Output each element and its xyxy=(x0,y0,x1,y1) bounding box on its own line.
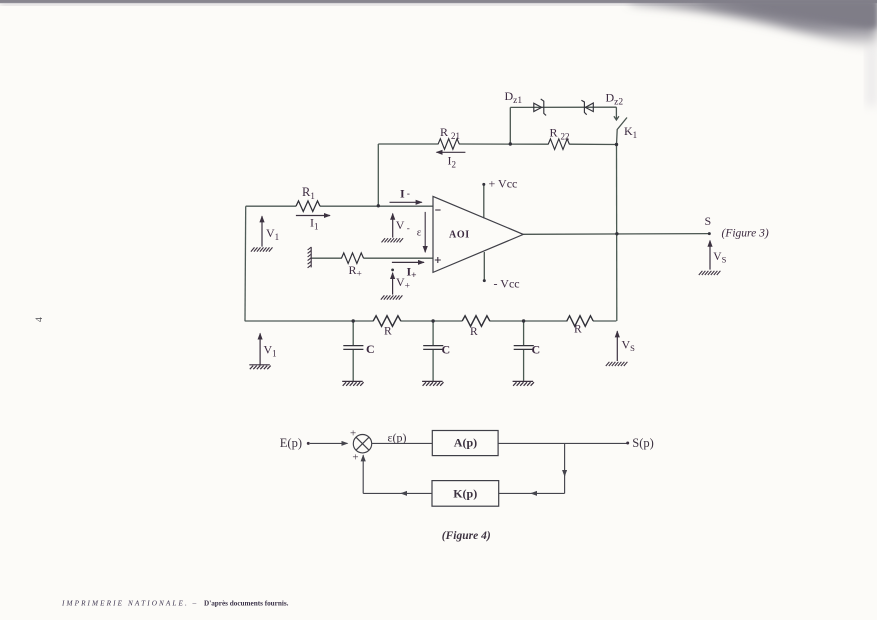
ground under V- xyxy=(382,238,404,242)
wire: E(p) into summing junction xyxy=(310,442,348,444)
wire: zener branch right drop to switch contact xyxy=(615,107,617,119)
zener diode Dz1 xyxy=(534,99,546,116)
capacitor C1 plates xyxy=(343,346,363,350)
svg-text:C: C xyxy=(532,343,541,357)
arrow V1 (ladder left, points up) xyxy=(259,333,261,365)
svg-text:S(p): S(p) xyxy=(632,436,654,450)
svg-text:E(p): E(p) xyxy=(280,436,302,450)
wire: feedback line through R21 R22 xyxy=(378,143,616,146)
ground under capacitor C2 xyxy=(422,381,443,385)
zener diode Dz2 xyxy=(581,100,593,115)
wire: feedback up into summer xyxy=(362,455,364,493)
op-amp non-inverting pin plus sign xyxy=(435,257,441,263)
ground under V1 (input) xyxy=(251,247,273,251)
ground under capacitor C3 xyxy=(513,381,534,385)
ground under Vs (ladder right) xyxy=(606,362,628,366)
switch K1 blade xyxy=(617,118,628,145)
arrow epsilon (points down) xyxy=(424,212,426,252)
top-right page-curl shadow xyxy=(630,0,877,50)
op-amp inverting pin minus sign xyxy=(435,209,440,211)
arrow Vs (ladder right, points up) xyxy=(616,331,618,361)
node: output crosses right vertical xyxy=(615,232,618,235)
svg-text:4: 4 xyxy=(35,317,45,322)
wire: feedback into K(p) right side xyxy=(531,492,565,494)
svg-text:I -: I - xyxy=(400,187,410,201)
faint right edge shading below corner xyxy=(866,48,877,106)
svg-text:D'après documents fournis.: D'après documents fournis. xyxy=(204,600,289,608)
resistor R22 xyxy=(548,139,569,150)
node: zener branch joins feedback line xyxy=(509,142,512,145)
capacitor C2 plates xyxy=(423,346,443,350)
ground under V+ xyxy=(381,295,403,299)
svg-text:(Figure 3): (Figure 3) xyxy=(722,228,769,240)
ladder resistor R (third) xyxy=(567,316,593,327)
svg-text:IMPRIMERIE NATIONALE.: IMPRIMERIE NATIONALE. xyxy=(61,600,189,608)
wire: feedback branch down xyxy=(564,443,566,476)
resistor R1 xyxy=(296,201,320,212)
svg-text:R: R xyxy=(470,326,478,338)
wire: capacitor C3 stem and lower lead xyxy=(523,321,525,381)
ladder resistor R (first) xyxy=(373,316,401,327)
wire: non-inverting input line from wall through R+ xyxy=(311,257,433,259)
arrow I+ xyxy=(392,261,424,263)
svg-text:R: R xyxy=(574,324,582,336)
svg-text:C: C xyxy=(442,343,451,357)
wire: op-amp output to S terminal xyxy=(523,233,709,236)
capacitor C3 plates xyxy=(514,346,534,350)
summing junction circle with X xyxy=(353,435,371,453)
wire: feedback into K(p) continuation xyxy=(499,492,536,494)
wire: feedback branch down continuation xyxy=(564,470,566,493)
wire: zener branch left vertical xyxy=(509,107,511,144)
wire: K(p) output leftwards xyxy=(401,492,432,494)
node: ladder junction 2 xyxy=(431,319,434,322)
svg-text:–: – xyxy=(192,598,197,607)
arrow I2 (points left) xyxy=(437,151,466,153)
arrow I1 xyxy=(296,215,330,217)
node: -Vcc terminal dot xyxy=(483,279,486,282)
svg-text:(Figure 4): (Figure 4) xyxy=(442,530,491,542)
node: switch joins feedback line xyxy=(615,143,618,146)
op-amp U1 triangle AOI xyxy=(433,196,523,272)
node: +Vcc terminal dot xyxy=(482,183,485,186)
wire: zener branch horizontal xyxy=(510,106,616,108)
node: ladder junction 3 xyxy=(522,319,525,322)
wire: -Vcc supply lead xyxy=(483,252,485,281)
resistor R+ xyxy=(341,253,363,264)
svg-text:- Vcc: - Vcc xyxy=(494,277,520,291)
scanner top edge dark strip xyxy=(0,0,877,3)
node: V+ pick-off dot xyxy=(391,269,394,272)
svg-text:+ Vcc: + Vcc xyxy=(489,176,518,190)
node: E(p) terminal dot xyxy=(307,442,310,445)
wire: A(p) to S(p) xyxy=(498,442,628,444)
wire: feedback left vertical down to inverting node xyxy=(377,144,379,206)
ground under Vs (output) xyxy=(699,271,721,275)
ground wall at R+ left end xyxy=(308,247,312,268)
arrow V+ (points up) xyxy=(392,273,394,295)
wire: left vertical of input loop xyxy=(244,206,247,321)
resistor R21 xyxy=(438,139,459,150)
svg-text:AOI: AOI xyxy=(449,230,470,241)
node: S terminal dot xyxy=(708,232,711,235)
ground under V1 (ladder left) xyxy=(249,365,270,369)
wire: right vertical from switch K1 down to ladder xyxy=(616,145,618,322)
ground under capacitor C1 xyxy=(342,381,363,385)
arrow Vs (output, points up) xyxy=(709,241,711,270)
block K(p) box xyxy=(432,481,499,507)
arrow V- (points up) xyxy=(392,214,394,238)
node: S(p) terminal dot xyxy=(626,442,629,445)
wire: input line V1 to op-amp inverting input xyxy=(246,205,433,207)
wire: capacitor C2 stem and lower lead xyxy=(432,321,434,381)
wire: K(p) output leftwards continuation xyxy=(363,492,406,494)
wire: +Vcc supply lead xyxy=(483,184,485,218)
arrow V1 (input, points up) xyxy=(261,216,263,246)
svg-text:S: S xyxy=(705,214,712,228)
arrow I- xyxy=(390,201,422,203)
wire: summer to A(p) xyxy=(372,442,433,444)
svg-text:ε(p): ε(p) xyxy=(388,430,407,444)
wire: capacitor C1 stem and lower lead xyxy=(352,321,354,381)
svg-text:K(p): K(p) xyxy=(453,486,477,500)
wire: bottom RC ladder horizontal xyxy=(245,320,617,322)
svg-text:A(p): A(p) xyxy=(454,435,477,449)
ladder resistor R (second) xyxy=(462,316,490,327)
svg-text:+: + xyxy=(352,452,358,464)
node: ladder junction 1 xyxy=(352,319,355,322)
svg-text:C: C xyxy=(366,342,375,356)
switch K1 fixed contact tick xyxy=(614,116,619,120)
block A(p) box xyxy=(432,431,498,456)
node: feedback joins inverting input xyxy=(377,204,380,207)
svg-text:ε: ε xyxy=(417,227,422,239)
svg-text:+: + xyxy=(350,428,356,440)
svg-text:R: R xyxy=(384,326,392,338)
